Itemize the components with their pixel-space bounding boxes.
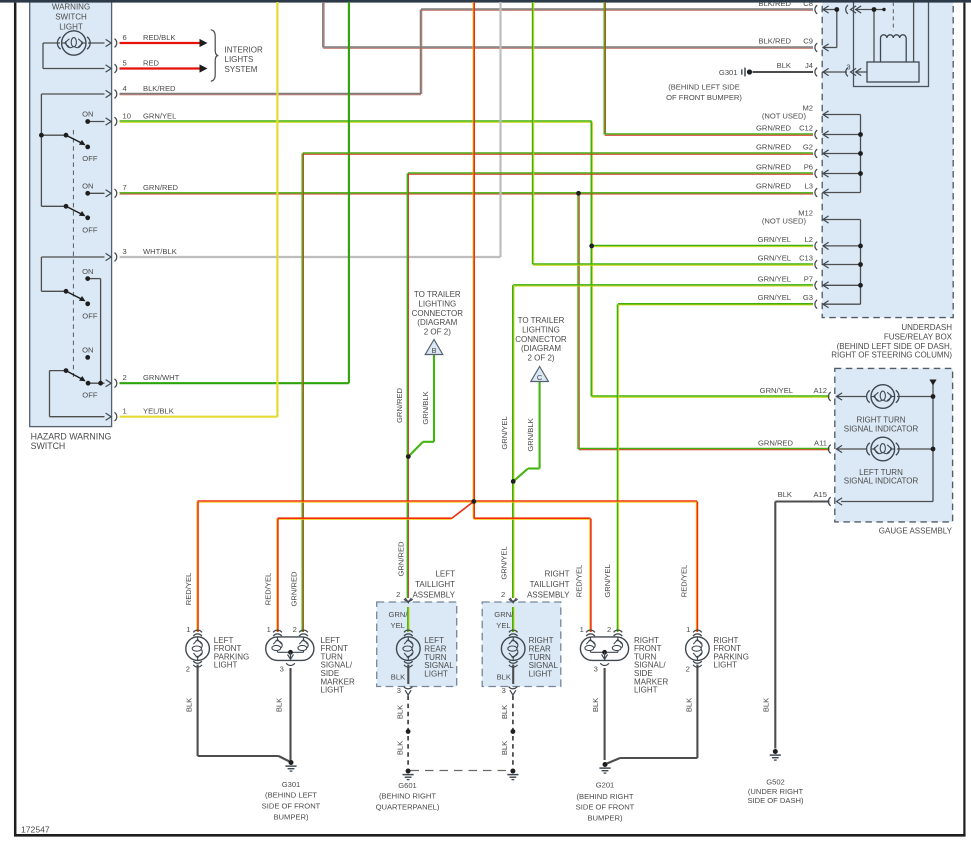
label pin 1 YEL/BLK <box>123 407 174 416</box>
svg-text:L2: L2 <box>805 235 813 244</box>
wire switch2 ON contact to pin 7 <box>88 192 105 194</box>
pin 5 connector <box>106 64 117 73</box>
label warning switch light <box>52 2 90 31</box>
svg-text:G3: G3 <box>803 293 813 302</box>
wire BLK dashed left rear ground <box>407 696 409 769</box>
svg-text:2: 2 <box>501 590 505 599</box>
lamp left front parking light <box>186 637 210 661</box>
svg-text:GRN/BLK: GRN/BLK <box>421 391 430 424</box>
label pin 2 right tail <box>501 590 505 599</box>
relay connector row C8 <box>846 5 861 14</box>
terminal right front turn pin1 <box>586 630 595 636</box>
wire BLK/RED pin 4 to C8 <box>120 9 814 95</box>
svg-text:OFF: OFF <box>82 226 98 235</box>
label BLK/RED C9 <box>759 37 814 46</box>
svg-text:3: 3 <box>502 686 506 695</box>
pin 2 connector <box>106 379 117 388</box>
svg-text:GRN/RED: GRN/RED <box>395 387 404 423</box>
svg-text:L3: L3 <box>805 182 813 191</box>
lamp right rear turn signal <box>501 637 525 661</box>
label BLK G502 <box>762 698 771 712</box>
svg-text:LIGHTING: LIGHTING <box>522 325 560 334</box>
svg-text:SWITCH: SWITCH <box>31 441 66 451</box>
lamp left front turn signal <box>266 637 314 661</box>
label GRN/BLK trailer B <box>421 391 430 424</box>
wire GRN/RED P6 to left rear turn <box>407 173 813 598</box>
terminal left front parking bottom <box>193 661 202 667</box>
svg-text:GRN/RED: GRN/RED <box>756 163 792 172</box>
svg-text:LIGHT: LIGHT <box>529 669 553 678</box>
wire J4 G301 lead <box>753 71 814 73</box>
label pin 5 RED <box>123 58 160 67</box>
label pin 2 left parking <box>186 665 190 674</box>
wire switch1 ON contact to pin 10 <box>88 121 105 123</box>
label right turn signal indicator <box>844 415 919 433</box>
label GRN/YEL G3 <box>758 293 813 302</box>
relay outline box <box>854 0 929 87</box>
svg-text:B: B <box>431 346 436 355</box>
svg-text:(BEHIND LEFT: (BEHIND LEFT <box>265 791 317 800</box>
label pin 2 left turn <box>293 625 297 634</box>
label BLK left turn <box>275 698 284 712</box>
svg-text:RIGHT TURN: RIGHT TURN <box>856 415 905 424</box>
relay contact box <box>867 62 919 82</box>
svg-text:BLK: BLK <box>275 698 284 712</box>
label RED/YEL left turn <box>264 573 273 606</box>
wire lamp loop to pin 5 <box>43 43 105 69</box>
svg-text:2: 2 <box>396 590 400 599</box>
svg-text:3: 3 <box>846 62 850 71</box>
svg-text:LIGHT: LIGHT <box>214 661 238 670</box>
svg-text:C12: C12 <box>799 124 813 133</box>
svg-text:GRN/YEL: GRN/YEL <box>758 235 791 244</box>
wire GRN/RED C12 from top <box>604 2 813 135</box>
connector triangle C <box>531 367 549 383</box>
label BLK right rear upper <box>500 705 509 719</box>
svg-text:TO TRAILER: TO TRAILER <box>518 316 565 325</box>
label pin 2 right parking <box>686 665 690 674</box>
svg-text:BLK: BLK <box>762 698 771 712</box>
label M2 not used <box>762 103 813 120</box>
wire BLK right turn pin 3 to G201 <box>604 668 606 760</box>
svg-text:BLK: BLK <box>497 672 511 681</box>
wire WHT/BLK pin 3 <box>120 2 501 257</box>
svg-text:2: 2 <box>607 625 611 634</box>
svg-text:3: 3 <box>123 247 127 256</box>
label switch position OFF <box>82 312 98 321</box>
svg-text:BLK: BLK <box>500 705 509 719</box>
label switch position OFF <box>82 391 98 400</box>
label pin 7 GRN/RED <box>123 183 179 192</box>
svg-text:(BEHIND RIGHT: (BEHIND RIGHT <box>577 792 634 801</box>
svg-text:(UNDER RIGHT: (UNDER RIGHT <box>748 787 804 796</box>
svg-text:YEL: YEL <box>391 621 405 630</box>
terminal right rear top <box>509 630 518 636</box>
label pin 2 left tail <box>396 590 400 599</box>
svg-text:C13: C13 <box>799 254 813 263</box>
ground G601 left <box>403 769 414 780</box>
pin L3 connector <box>815 188 829 197</box>
label BLK right turn <box>591 698 600 712</box>
wire GRN/YEL inside left taillight <box>408 607 409 632</box>
svg-text:3: 3 <box>594 665 598 674</box>
svg-text:OFF: OFF <box>82 391 98 400</box>
pin 1 connector <box>106 412 117 421</box>
label GRN/RED L3 <box>756 182 813 191</box>
wire lamp right to pin 6 <box>88 42 105 44</box>
junction C13 <box>858 262 863 267</box>
svg-text:1: 1 <box>686 625 690 634</box>
wire C8 into relay <box>856 10 884 63</box>
label GRN/BLK trailer C <box>526 418 535 451</box>
svg-text:RED/YEL: RED/YEL <box>264 573 273 606</box>
svg-text:P6: P6 <box>804 163 813 172</box>
svg-text:1: 1 <box>267 625 271 634</box>
label 3 relay pin <box>846 62 850 71</box>
svg-text:A11: A11 <box>814 438 827 447</box>
svg-text:10: 10 <box>123 111 131 120</box>
wire switch4 pivot to pin 1 <box>50 371 105 417</box>
svg-text:BLK: BLK <box>777 61 791 70</box>
label switch position ON <box>82 181 93 190</box>
svg-text:LIGHT: LIGHT <box>634 686 658 695</box>
relay connector row J4 pin 3 <box>846 68 861 77</box>
svg-text:SIDE OF DASH): SIDE OF DASH) <box>747 796 804 805</box>
top dark band <box>0 0 971 3</box>
svg-text:UNDERDASH: UNDERDASH <box>901 323 952 332</box>
terminal left front turn pin2 <box>299 630 308 636</box>
pin 4 connector <box>106 90 117 99</box>
wire GRN/BLK to trailer connector B <box>408 355 434 457</box>
wire BLK right parking to G201 <box>607 665 697 764</box>
label pin 1 left turn <box>267 625 271 634</box>
page border left <box>14 3 17 837</box>
svg-text:ON: ON <box>82 267 93 276</box>
wire J4 internal to relay <box>823 71 868 73</box>
wire M12 bus section <box>823 220 861 305</box>
svg-text:ON: ON <box>82 345 93 354</box>
label right front parking light <box>714 636 749 670</box>
svg-text:ASSEMBLY: ASSEMBLY <box>412 590 455 599</box>
wire BLK left turn pin 3 to G301 <box>289 668 291 760</box>
svg-text:GRN/WHT: GRN/WHT <box>143 373 180 382</box>
label pin 6 RED/BLK <box>123 33 176 42</box>
pin 10 connector <box>106 117 117 126</box>
label GRN/YEL P7 <box>758 274 813 283</box>
wire BLK inside left taillight <box>407 665 409 685</box>
svg-text:5: 5 <box>123 58 127 67</box>
wire RED/YEL main feed from top <box>473 2 474 501</box>
svg-text:RIGHT: RIGHT <box>545 569 570 578</box>
terminal right front turn pin2 <box>614 630 623 636</box>
svg-text:6: 6 <box>123 33 127 42</box>
wire M2 bus section <box>823 115 861 193</box>
label underdash fuse relay box <box>831 323 952 360</box>
label BLK right tail inside <box>497 672 511 681</box>
svg-text:LEFT: LEFT <box>435 569 455 578</box>
label BLK A15 <box>778 490 827 499</box>
svg-text:4: 4 <box>123 84 127 93</box>
label pin 2 GRN/WHT <box>123 373 180 382</box>
label GRN YEL right tail inside <box>494 610 514 630</box>
connector triangle B <box>425 340 443 356</box>
svg-text:OFF: OFF <box>82 312 98 321</box>
label switch position ON <box>82 110 93 119</box>
label left turn signal indicator <box>844 468 919 486</box>
wire BLK left parking to G301 <box>198 665 290 762</box>
pin 3 right taillight connector <box>509 687 518 696</box>
svg-text:GRN/RED: GRN/RED <box>756 143 792 152</box>
label right taillight assembly <box>527 569 570 599</box>
svg-text:A15: A15 <box>813 490 827 499</box>
svg-text:LIGHT: LIGHT <box>714 661 738 670</box>
svg-text:BUMPER): BUMPER) <box>587 814 622 823</box>
label switch position ON <box>82 345 93 354</box>
svg-text:ON: ON <box>82 110 93 119</box>
svg-text:WARNING: WARNING <box>52 2 90 11</box>
label interior lights system <box>225 45 263 74</box>
label G502 <box>747 778 804 805</box>
svg-text:GRN/RED: GRN/RED <box>758 438 794 447</box>
label GRN/YEL A12 <box>760 386 827 395</box>
label RED/YEL right turn <box>574 565 583 598</box>
svg-text:LIGHT: LIGHT <box>424 669 448 678</box>
gauge bus arrow top <box>929 380 936 386</box>
wire RED/YEL parking bus <box>198 501 697 502</box>
wire RED/YEL to right front parking pin 1 <box>696 501 697 632</box>
svg-text:RED/YEL: RED/YEL <box>574 565 583 598</box>
svg-text:QUARTERPANEL): QUARTERPANEL) <box>376 803 440 812</box>
svg-text:GRN/YEL: GRN/YEL <box>500 546 509 579</box>
label pin 4 BLK/RED <box>123 84 177 93</box>
svg-text:BLK: BLK <box>685 698 694 712</box>
pin C8 connector <box>815 5 829 14</box>
svg-text:SWITCH: SWITCH <box>55 12 87 21</box>
svg-text:GRN/YEL: GRN/YEL <box>758 254 791 263</box>
svg-text:GRN/YEL: GRN/YEL <box>603 564 612 597</box>
wire RED/YEL turn bus with jog <box>278 501 591 519</box>
lamp right front turn signal <box>580 637 628 661</box>
svg-text:GRN/YEL: GRN/YEL <box>758 293 791 302</box>
label right rear turn signal light <box>529 636 559 678</box>
label BLK J4 <box>777 61 813 70</box>
label switch position OFF <box>82 226 98 235</box>
svg-text:G502: G502 <box>766 778 785 787</box>
svg-text:2: 2 <box>686 665 690 674</box>
svg-text:LIGHTS: LIGHTS <box>225 55 254 64</box>
wire C8 internal bus <box>823 10 837 48</box>
svg-text:BLK: BLK <box>185 698 194 712</box>
label to trailer lighting connector B <box>412 290 464 336</box>
node L2 tap <box>589 244 594 249</box>
label GRN/RED G2 <box>756 143 813 152</box>
terminal left front turn pin3 <box>286 663 295 665</box>
junction C8 bus <box>834 7 839 12</box>
page border right <box>963 3 965 837</box>
pin A15 connector <box>828 497 842 506</box>
switch 1 hazard <box>39 119 90 149</box>
svg-text:OFF: OFF <box>82 154 98 163</box>
relay coil dashed feed <box>892 2 894 31</box>
label pin 3 left tail <box>397 686 401 695</box>
svg-text:GRN/YEL: GRN/YEL <box>758 274 791 283</box>
label G301 bottom <box>262 780 321 821</box>
wire RED/BLK pin 6 <box>120 42 200 44</box>
svg-text:(BEHIND LEFT SIDE: (BEHIND LEFT SIDE <box>668 83 740 92</box>
svg-text:J4: J4 <box>805 61 813 70</box>
label left front parking light <box>214 636 249 670</box>
label GRN/YEL trailer C <box>500 416 509 449</box>
svg-text:LEFT TURN: LEFT TURN <box>859 468 903 477</box>
label BLK left tail inside <box>391 672 405 681</box>
junction relay feed <box>872 7 886 12</box>
label RED/YEL right parking <box>679 565 688 598</box>
svg-text:GRN/: GRN/ <box>389 610 409 619</box>
junction P6 <box>858 171 863 176</box>
label GRN/RED trailer B <box>395 387 404 423</box>
svg-text:FUSE/RELAY BOX: FUSE/RELAY BOX <box>884 332 953 341</box>
wire GRN/RED G2 to left turn pin 2 <box>302 153 813 632</box>
svg-text:G201: G201 <box>596 781 615 790</box>
svg-text:C9: C9 <box>803 37 813 46</box>
pin C12 connector <box>815 130 829 139</box>
pin J4 connector <box>815 68 829 77</box>
terminal left front parking top <box>193 630 202 636</box>
svg-text:TO TRAILER: TO TRAILER <box>414 290 461 299</box>
svg-text:SYSTEM: SYSTEM <box>225 65 258 74</box>
pin P7 connector <box>815 281 829 290</box>
lamp right turn signal indicator <box>867 385 899 409</box>
svg-text:BLK: BLK <box>391 672 405 681</box>
terminal left rear bottom <box>404 661 413 667</box>
svg-text:2 OF 2): 2 OF 2) <box>527 353 554 362</box>
terminal right front parking bottom <box>693 661 702 667</box>
clipped top labels BLK/RED C8 <box>759 0 814 8</box>
pin C9 connector <box>815 43 829 52</box>
svg-text:TAILLIGHT: TAILLIGHT <box>415 580 455 589</box>
wire GRN/YEL inside right taillight <box>513 607 514 632</box>
label hazard warning switch <box>31 432 112 451</box>
label left taillight assembly <box>412 569 455 599</box>
svg-text:GRN/RED: GRN/RED <box>756 182 792 191</box>
svg-text:GAUGE ASSEMBLY: GAUGE ASSEMBLY <box>879 527 953 536</box>
svg-text:BUMPER): BUMPER) <box>273 812 308 821</box>
label pin 2 right turn <box>607 625 611 634</box>
label gauge assembly <box>879 527 953 536</box>
svg-text:GRN/RED: GRN/RED <box>756 124 792 133</box>
pin G2 connector <box>815 149 829 158</box>
svg-text:SIGNAL INDICATOR: SIGNAL INDICATOR <box>844 424 919 433</box>
label switch position OFF <box>82 154 98 163</box>
label right front turn signal <box>634 636 668 695</box>
terminal left front turn pin1 <box>273 630 282 636</box>
terminal right rear bottom <box>509 661 518 667</box>
svg-text:2: 2 <box>293 625 297 634</box>
wire GRN/YEL C13 from top <box>533 2 813 265</box>
svg-text:LIGHTING: LIGHTING <box>418 299 456 308</box>
junction G2 <box>858 151 863 156</box>
brace interior lights system <box>211 30 219 81</box>
label pin 3 WHT/BLK <box>123 247 177 256</box>
svg-text:SIDE OF FRONT: SIDE OF FRONT <box>262 802 321 811</box>
lamp right front parking light <box>686 637 710 661</box>
svg-text:TAILLIGHT: TAILLIGHT <box>530 580 570 589</box>
svg-text:CONNECTOR: CONNECTOR <box>412 309 464 318</box>
pin 7 connector <box>106 189 117 198</box>
svg-text:G301: G301 <box>719 68 738 77</box>
svg-text:(DIAGRAM: (DIAGRAM <box>521 344 561 353</box>
svg-text:(NOT USED): (NOT USED) <box>762 217 807 226</box>
label pin 1 right parking <box>686 625 690 634</box>
label GRN/YEL L2 <box>758 235 813 244</box>
svg-text:(NOT USED): (NOT USED) <box>762 112 807 121</box>
wire dashed ground link G601 <box>411 770 510 772</box>
pin A12 connector <box>828 392 842 401</box>
svg-text:172547: 172547 <box>21 825 50 835</box>
svg-text:(DIAGRAM: (DIAGRAM <box>417 318 457 327</box>
label M12 not used <box>762 208 813 225</box>
label GRN/YEL right turn <box>603 564 612 597</box>
label left front turn signal <box>321 636 355 695</box>
wire A11 to left indicator <box>836 448 866 450</box>
svg-text:P7: P7 <box>804 274 813 283</box>
label left rear turn signal light <box>424 636 454 678</box>
label BLK right rear lower <box>500 741 509 755</box>
wire GRN/YEL P7 to right rear turn <box>513 285 813 598</box>
svg-text:A12: A12 <box>813 386 827 395</box>
svg-text:INTERIOR: INTERIOR <box>225 45 263 54</box>
label G601 <box>376 781 440 812</box>
svg-text:BLK: BLK <box>591 698 600 712</box>
wire RED/YEL to left front turn pin 1 <box>277 519 278 632</box>
svg-text:RED/YEL: RED/YEL <box>184 573 193 606</box>
junction P7 <box>858 283 863 288</box>
label G201 <box>576 781 635 823</box>
svg-text:BLK/RED: BLK/RED <box>143 84 176 93</box>
pin M12 connector <box>823 216 829 223</box>
wire RED/YEL to right front turn pin 1 <box>590 519 591 632</box>
svg-text:2 OF 2): 2 OF 2) <box>424 327 451 336</box>
svg-text:7: 7 <box>123 183 127 192</box>
label RED/YEL left parking <box>184 573 193 606</box>
svg-text:ON: ON <box>82 181 93 190</box>
label pin 1 right turn <box>580 625 584 634</box>
svg-text:BLK: BLK <box>500 741 509 755</box>
svg-text:3: 3 <box>280 665 284 674</box>
svg-text:YEL/BLK: YEL/BLK <box>143 407 174 416</box>
svg-text:RED/YEL: RED/YEL <box>679 565 688 598</box>
label GRN/YEL C13 <box>758 254 813 263</box>
page border bottom <box>14 834 966 837</box>
wire gauge indicator bus <box>841 384 933 502</box>
switch 4 hazard <box>64 355 103 386</box>
label pin 10 GRN/YEL <box>123 111 177 120</box>
label pin 3 right turn <box>594 665 598 674</box>
label BLK left rear lower <box>395 741 404 755</box>
junction gauge A12 <box>931 394 936 399</box>
right taillight assembly box <box>482 602 561 687</box>
wire GRN/RED pin 7 to L3/A11 <box>120 193 830 450</box>
label GRN YEL left tail inside <box>389 610 409 630</box>
svg-text:BLK/RED: BLK/RED <box>759 37 792 46</box>
arrow interior lights pin 5 <box>200 64 208 72</box>
svg-text:RED/BLK: RED/BLK <box>143 33 176 42</box>
label BLK left rear upper <box>395 705 404 719</box>
hazard warning switch box <box>30 0 112 427</box>
svg-text:(BEHIND RIGHT: (BEHIND RIGHT <box>379 792 436 801</box>
svg-text:SIDE OF FRONT: SIDE OF FRONT <box>576 803 635 812</box>
junction L2 bus <box>858 244 863 249</box>
